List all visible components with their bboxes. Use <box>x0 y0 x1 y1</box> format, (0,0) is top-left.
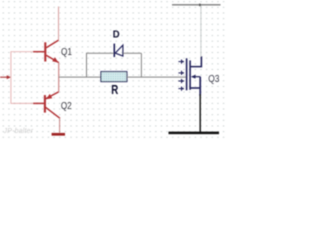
wire output node horizontal <box>59 76 101 78</box>
source lead <box>190 87 200 89</box>
gate bar <box>186 58 188 90</box>
diode D <box>114 44 123 57</box>
wire diode right <box>123 52 141 54</box>
svg-text:R: R <box>111 83 118 97</box>
wire resistor to gate <box>127 76 186 78</box>
svg-text:Q3: Q3 <box>208 74 219 85</box>
wire Q1 collector vertical <box>58 7 60 41</box>
svg-text:Q1: Q1 <box>61 47 72 58</box>
svg-text:Q2: Q2 <box>61 101 72 112</box>
wire drain supply (light) <box>200 6 202 57</box>
svg-text:D: D <box>113 28 120 40</box>
wire emitter junction vertical <box>58 62 60 92</box>
wire diode branch vertical <box>86 53 88 77</box>
drain lead <box>190 56 201 66</box>
svg-text:JP-balter: JP-balter <box>3 128 34 135</box>
wire source to ground <box>199 94 201 132</box>
transistor Q3 (N-MOSFET) <box>178 56 201 96</box>
source vertical <box>199 77 201 96</box>
pin mark 1 <box>178 60 184 64</box>
ground (black, right) <box>169 132 220 135</box>
ground (red, under Q2) <box>52 133 65 136</box>
pin mark 2 <box>178 71 184 75</box>
wire input arrow <box>0 75 11 79</box>
power rail <box>172 4 221 6</box>
pin mark 3 <box>178 79 184 83</box>
wire Q2 collector down <box>59 118 61 134</box>
channel bar <box>189 60 191 89</box>
pin mark 4 <box>178 87 184 91</box>
transistor Q2 <box>33 92 60 118</box>
node base bus (pink loop) <box>11 52 45 104</box>
body lead with arrow <box>194 76 201 78</box>
resistor R <box>101 72 127 82</box>
wire right branch vertical <box>140 53 142 77</box>
wire diode left <box>86 52 114 54</box>
transistor Q1 <box>33 40 59 63</box>
